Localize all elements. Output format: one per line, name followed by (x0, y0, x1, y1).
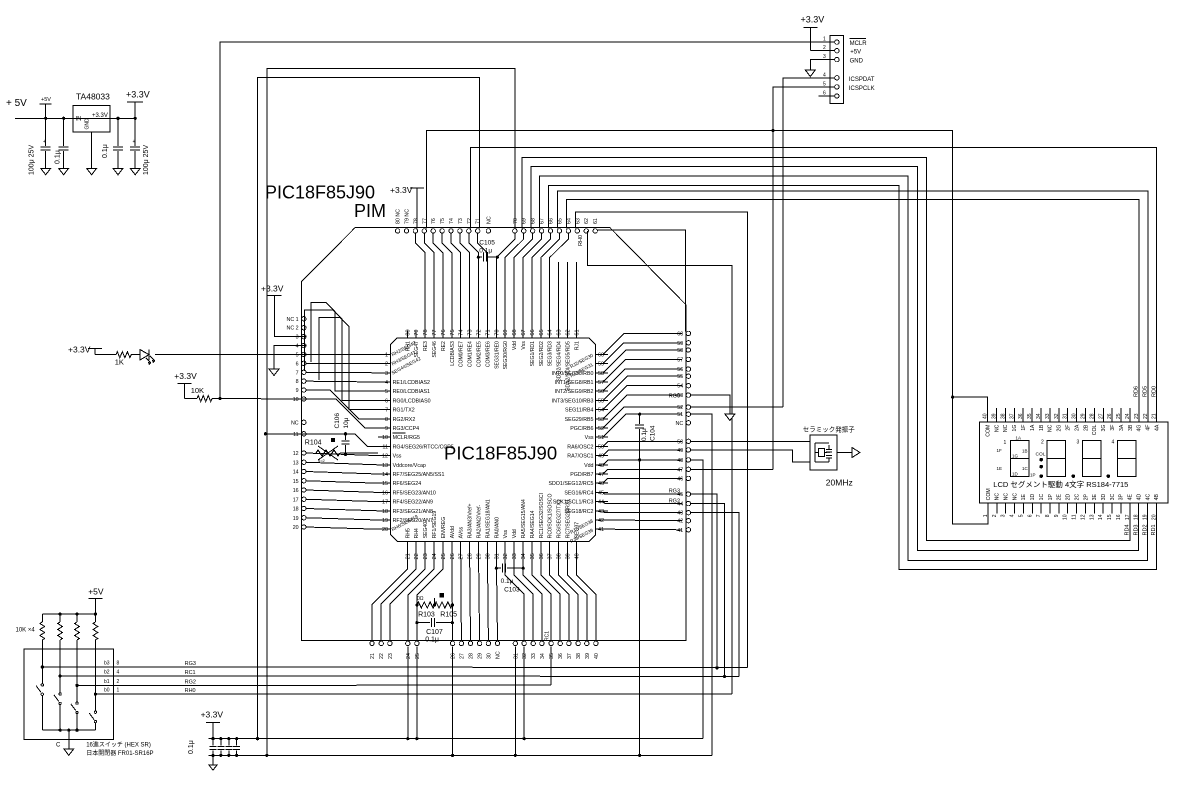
svg-text:NC: NC (1003, 424, 1009, 432)
svg-text:b0: b0 (104, 688, 110, 694)
svg-text:RF7/SEG25/AN5/SS1: RF7/SEG25/AN5/SS1 (393, 472, 445, 478)
svg-text:37: 37 (567, 653, 573, 659)
svg-text:5: 5 (823, 81, 826, 87)
svg-text:NC: NC (496, 651, 502, 659)
wire OSC1 to resonator (691, 450, 810, 462)
svg-text:39: 39 (566, 553, 572, 559)
display LCD decimal dots (1072, 474, 1111, 478)
label PIC18F85J90 PIM title (265, 183, 386, 221)
svg-text:46: 46 (598, 481, 604, 487)
svg-text:76: 76 (441, 329, 447, 335)
svg-text:+3.3V: +3.3V (126, 90, 150, 100)
label switch name (86, 741, 151, 749)
display LCD top pin labels (985, 424, 1160, 437)
svg-text:SEG2/RD2: SEG2/RD2 (539, 341, 545, 366)
ground C102 (59, 168, 69, 175)
svg-text:NC: NC (1012, 493, 1018, 501)
svg-text:65: 65 (557, 218, 563, 224)
svg-text:0Ω: 0Ω (417, 596, 424, 602)
wire COM to LCD pin40 (951, 396, 987, 409)
svg-text:22: 22 (379, 653, 385, 659)
svg-text:6: 6 (296, 361, 299, 367)
svg-text:+: + (133, 139, 136, 145)
svg-text:59: 59 (598, 362, 604, 368)
svg-text:R104: R104 (305, 440, 322, 447)
svg-text:1B: 1B (1022, 449, 1028, 454)
resistor array 10K x4 (16, 622, 98, 640)
wire switch b1 RG2 (75, 679, 186, 687)
svg-text:14: 14 (293, 470, 299, 476)
svg-text:21: 21 (405, 553, 411, 559)
display LCD title (993, 479, 1128, 489)
svg-text:38: 38 (557, 553, 563, 559)
svg-text:1C: 1C (1039, 494, 1045, 501)
svg-text:33: 33 (531, 653, 537, 659)
regulator GND label (85, 118, 91, 130)
svg-text:RD6: RD6 (1134, 386, 1140, 397)
module PIM top pin numbers (396, 209, 600, 224)
svg-text:RE1/LCDBIAS2: RE1/LCDBIAS2 (393, 380, 430, 386)
svg-text:78: 78 (413, 218, 419, 224)
resistor R103 0 ohm (415, 596, 436, 619)
svg-text:53: 53 (598, 417, 604, 423)
svg-text:1: 1 (823, 37, 826, 43)
wire fan PIM top pins 70-61 to chip (496, 233, 576, 331)
capacitor C104a 100u 25V electrolytic (130, 118, 150, 175)
display LCD digit1 segment labels (997, 436, 1036, 478)
svg-text:b1: b1 (104, 679, 110, 685)
svg-text:60: 60 (677, 331, 683, 337)
svg-text:74: 74 (459, 329, 465, 335)
wire ICSPCLK to PIM pin47 (691, 468, 773, 470)
svg-text:32: 32 (1054, 413, 1060, 419)
svg-text:57: 57 (677, 357, 683, 363)
junction C103a (116, 117, 119, 120)
display LCD colon label and dots (1036, 452, 1046, 478)
power flag +3.3V PIM top pin78 (390, 185, 424, 229)
svg-text:RD3: RD3 (1133, 524, 1139, 535)
svg-text:26: 26 (1107, 413, 1113, 419)
svg-text:8: 8 (296, 379, 299, 385)
svg-text:4B: 4B (1154, 494, 1160, 501)
svg-text:43: 43 (677, 511, 683, 517)
resistor R2 10K (184, 396, 212, 402)
svg-text:1A: 1A (1030, 424, 1036, 431)
svg-text:ENVREG: ENVREG (441, 517, 447, 539)
svg-text:73: 73 (468, 329, 474, 335)
chip U1 bottom pin stubs (407, 541, 576, 552)
svg-text:0.1μ: 0.1μ (479, 248, 492, 255)
svg-text:1P: 1P (1048, 494, 1054, 501)
connector J1 pin 2 (819, 45, 840, 53)
svg-text:0.1μ: 0.1μ (188, 740, 195, 754)
wire PIM pin31 to GND rail (514, 646, 516, 755)
svg-text:LCDBIAS3: LCDBIAS3 (450, 341, 456, 366)
svg-text:75: 75 (440, 218, 446, 224)
wire PIM pin53 RG0 (691, 395, 730, 414)
svg-text:PGD/RB7: PGD/RB7 (570, 472, 593, 478)
svg-text:1D: 1D (1030, 494, 1036, 501)
svg-text:8: 8 (385, 417, 388, 423)
svg-text:66: 66 (530, 329, 536, 335)
svg-text:+3.3V: +3.3V (201, 710, 224, 720)
svg-text:38: 38 (576, 653, 582, 659)
svg-text:SEG16/RC4: SEG16/RC4 (564, 490, 593, 496)
svg-text:1E: 1E (997, 466, 1003, 471)
wire PIM left pins 6-8 to chip 2-4 (306, 363, 378, 382)
svg-text:19: 19 (293, 516, 299, 522)
wire RD4 bus (522, 158, 1130, 541)
svg-text:71: 71 (476, 218, 482, 224)
display LCD digit234 labels (1041, 440, 1115, 446)
ground ICSP (805, 70, 815, 77)
switch SW1 poles (36, 640, 97, 730)
svg-text:18: 18 (382, 509, 388, 515)
svg-text:3: 3 (1077, 440, 1080, 446)
wire PIM pin26 to GND rail (452, 646, 454, 755)
svg-text:29: 29 (478, 653, 484, 659)
svg-text:77: 77 (422, 218, 428, 224)
wire RD2 bus (540, 176, 1148, 560)
svg-text:28: 28 (468, 553, 474, 559)
svg-text:RH1: RH1 (405, 341, 411, 351)
ground switch common (64, 749, 74, 756)
capacitor C104 0.1u (635, 413, 656, 462)
wire RD1 bus (549, 186, 1157, 570)
svg-text:RC1: RC1 (185, 670, 196, 676)
wire ICSPCLK net (773, 87, 819, 469)
svg-text:1: 1 (385, 352, 388, 358)
svg-text:57: 57 (598, 380, 604, 386)
connector J1 pin 5 (819, 81, 840, 89)
svg-text:11: 11 (382, 444, 388, 450)
svg-text:COL: COL (1092, 424, 1098, 435)
svg-text:40: 40 (983, 413, 989, 419)
connector J1 pin 6 (819, 91, 840, 99)
svg-text:51: 51 (677, 412, 683, 418)
svg-text:10μ: 10μ (343, 417, 350, 428)
svg-text:ICSPCLK: ICSPCLK (849, 86, 875, 92)
wire ICSPDAT net (783, 78, 819, 407)
junction C104a (134, 117, 137, 120)
wire RG3 bus line (186, 666, 747, 669)
svg-text:4C: 4C (1145, 494, 1151, 501)
wire MCLR net (220, 42, 819, 399)
svg-text:RC1: RC1 (545, 631, 551, 641)
wire R1 to LED (131, 354, 140, 356)
wire fan chip bottom pins to PIM bottom pins (372, 552, 596, 641)
svg-text:4A: 4A (1155, 424, 1161, 431)
module PIM right pin numbers (676, 331, 684, 533)
svg-text:45: 45 (598, 490, 604, 496)
svg-text:1K: 1K (115, 358, 124, 367)
label ceramic resonator (803, 425, 856, 434)
svg-text:24: 24 (406, 653, 412, 659)
svg-text:RE2: RE2 (441, 341, 447, 351)
svg-text:RH0: RH0 (185, 688, 196, 694)
svg-text:35: 35 (530, 553, 536, 559)
svg-text:2F: 2F (1066, 425, 1072, 431)
label GND (850, 59, 864, 65)
svg-text:10K: 10K (191, 386, 204, 395)
label RG3 right (669, 489, 680, 495)
svg-text:RD0: RD0 (1152, 386, 1158, 397)
svg-text:SEG29/RB5: SEG29/RB5 (565, 417, 594, 423)
wire switch b2 RC1 (59, 670, 187, 678)
regulator +3.3V out label (92, 113, 108, 119)
svg-text:7: 7 (296, 370, 299, 376)
svg-text:31: 31 (1063, 413, 1069, 419)
svg-text:41: 41 (677, 528, 683, 534)
svg-text:58: 58 (598, 371, 604, 377)
svg-text:38: 38 (1000, 413, 1006, 419)
ground cap bank (209, 755, 217, 770)
wire RH0 bus line (186, 693, 732, 695)
svg-text:25: 25 (1116, 413, 1122, 419)
svg-text:0.1μ: 0.1μ (641, 428, 648, 441)
svg-text:RG0/LCDBIAS0: RG0/LCDBIAS0 (393, 398, 431, 404)
display LCD digit outlines (1011, 441, 1136, 477)
wire PIM pin3 to +3.3V (275, 296, 306, 337)
svg-text:22: 22 (414, 553, 420, 559)
svg-text:RH5: RH5 (405, 528, 411, 538)
svg-text:22: 22 (1143, 413, 1149, 419)
connector J1 pin 1 (819, 37, 840, 45)
wire R103 R105 rails (417, 598, 452, 623)
svg-text:1: 1 (1004, 440, 1007, 446)
svg-text:14: 14 (1098, 514, 1104, 520)
wire C104 ground drop (639, 460, 641, 756)
svg-text:IN: IN (76, 117, 82, 123)
svg-text:SEG46: SEG46 (432, 341, 438, 358)
junction C101 (44, 117, 47, 120)
svg-text:COM3/RE6: COM3/RE6 (485, 341, 491, 367)
svg-text:AVss: AVss (459, 526, 465, 538)
svg-text:64: 64 (548, 329, 554, 335)
label +5V (850, 50, 861, 56)
svg-text:RA7/OSC1: RA7/OSC1 (567, 454, 593, 460)
wire COM bus (773, 131, 953, 398)
capacitor C107 0.1u (415, 618, 454, 643)
svg-text:COM0/RE7: COM0/RE7 (459, 341, 465, 367)
svg-text:Vss: Vss (585, 435, 594, 441)
label MCLR (850, 39, 868, 47)
svg-text:MCLR/RG5: MCLR/RG5 (393, 435, 420, 441)
svg-text:2E: 2E (1057, 494, 1063, 501)
svg-text:21: 21 (1152, 413, 1158, 419)
svg-text:44: 44 (598, 500, 604, 506)
svg-text:+3.3V: +3.3V (261, 284, 284, 294)
capacitor bank 0.1u x4 (188, 739, 240, 756)
power flag +5V switch (88, 587, 104, 615)
svg-text:35: 35 (1027, 413, 1033, 419)
svg-text:59: 59 (677, 341, 683, 347)
connector J1 pin 4 (819, 72, 840, 80)
svg-text:17: 17 (293, 497, 299, 503)
wire RC1 vertical right (691, 513, 740, 677)
svg-text:13: 13 (382, 463, 388, 469)
ground C104a (130, 168, 140, 175)
chip U1 top pin numbers (405, 329, 580, 335)
svg-text:25: 25 (441, 553, 447, 559)
svg-text:18: 18 (1134, 514, 1140, 520)
svg-text:36: 36 (539, 553, 545, 559)
svg-text:55: 55 (677, 374, 683, 380)
wire GND bottom rail (209, 754, 713, 757)
svg-text:4G: 4G (1137, 425, 1143, 432)
svg-text:32: 32 (522, 653, 528, 659)
svg-text:24: 24 (432, 553, 438, 559)
svg-text:34: 34 (1036, 413, 1042, 419)
svg-text:RG2: RG2 (669, 498, 680, 504)
wire PIM pin25 to +3.3V rail (416, 646, 418, 738)
svg-text:3: 3 (385, 371, 388, 377)
capacitor C105 0.1u (477, 240, 499, 262)
svg-text:23: 23 (388, 653, 394, 659)
svg-text:75: 75 (450, 329, 456, 335)
svg-text:COM: COM (986, 488, 992, 500)
svg-text:0.1μ: 0.1μ (55, 150, 62, 164)
svg-text:NC 2: NC 2 (287, 326, 299, 332)
svg-text:1P: 1P (1030, 473, 1036, 478)
wire switch b0 RH0 (94, 688, 186, 696)
svg-text:3E: 3E (1092, 494, 1098, 501)
svg-text:37: 37 (1009, 413, 1015, 419)
wire PIM left pin 11 to chip 11 (306, 434, 378, 447)
ground regulator (87, 168, 97, 175)
svg-text:COM2/RE5: COM2/RE5 (477, 341, 483, 367)
svg-text:13: 13 (1089, 514, 1095, 520)
svg-text:54: 54 (677, 384, 683, 390)
svg-text:3F: 3F (1110, 425, 1116, 431)
svg-text:18: 18 (293, 507, 299, 513)
svg-text:64: 64 (566, 218, 572, 224)
svg-text:71: 71 (485, 329, 491, 335)
svg-text:Vdd: Vdd (512, 341, 518, 350)
svg-text:30: 30 (486, 653, 492, 659)
wire cluster risers to chip 5-7 (304, 302, 378, 409)
svg-text:56: 56 (677, 367, 683, 373)
svg-text:50: 50 (598, 444, 604, 450)
chip U1 left pin stubs (378, 354, 391, 529)
svg-text:29: 29 (1081, 413, 1087, 419)
svg-text:4=2: 4=2 (318, 458, 326, 463)
svg-text:NC: NC (994, 424, 1000, 432)
module PIM bottom pin numbers (370, 651, 600, 659)
resistor R105 (435, 593, 458, 619)
svg-text:24: 24 (1125, 413, 1131, 419)
svg-text:3G: 3G (1101, 425, 1107, 432)
svg-text:Vddcore/Vcap: Vddcore/Vcap (393, 463, 426, 469)
svg-text:RF1/SEG19: RF1/SEG19 (432, 511, 438, 539)
wire Vss pin11 junction (264, 432, 306, 435)
svg-text:Vdd: Vdd (512, 529, 518, 538)
svg-text:63: 63 (557, 329, 563, 335)
svg-text:b2: b2 (104, 670, 110, 676)
svg-text:79: 79 (414, 329, 420, 335)
wire to R1 (95, 354, 116, 356)
svg-text:Vss: Vss (521, 341, 527, 350)
label switch part no (86, 749, 153, 757)
svg-text:SEG40: SEG40 (423, 522, 429, 539)
svg-text:42: 42 (598, 518, 604, 524)
svg-text:0.1μ: 0.1μ (102, 144, 109, 158)
svg-text:17: 17 (1125, 514, 1131, 520)
svg-text:SDO2/SEG4/RD4: SDO2/SEG4/RD4 (557, 341, 563, 382)
svg-text:10: 10 (293, 397, 299, 403)
svg-text:COM: COM (985, 425, 991, 437)
svg-text:30: 30 (1072, 413, 1078, 419)
svg-text:4: 4 (117, 670, 120, 676)
svg-text:SEG31/RE0: SEG31/RE0 (494, 341, 500, 369)
chip U1 bottom pin labels (405, 493, 580, 538)
svg-text:3C: 3C (1110, 494, 1116, 501)
svg-text:RA1/SEG18/AN1: RA1/SEG18/AN1 (485, 499, 491, 538)
svg-text:4: 4 (1112, 440, 1115, 446)
svg-text:RD4: RD4 (1125, 524, 1131, 535)
svg-text:80: 80 (405, 329, 411, 335)
svg-text:1E: 1E (1021, 494, 1027, 501)
svg-text:6: 6 (385, 398, 388, 404)
svg-text:46: 46 (677, 476, 683, 482)
svg-text:33: 33 (1045, 413, 1051, 419)
wire ICSPCLK branch to PIM pin77 (427, 129, 775, 229)
regulator U TA48033 box (73, 92, 110, 133)
svg-text:RH4: RH4 (414, 528, 420, 538)
svg-text:52: 52 (677, 405, 683, 411)
wire RG3 to PIM top pin63 (575, 212, 747, 667)
svg-text:28: 28 (1089, 413, 1095, 419)
power flag +3.3V MCLR pullup (174, 371, 204, 399)
svg-text:1G: 1G (1012, 454, 1019, 459)
display LCD bottom pin numbers (983, 514, 1157, 520)
svg-text:RA4/SEG14: RA4/SEG14 (530, 510, 536, 538)
svg-text:49: 49 (677, 448, 683, 454)
svg-text:41: 41 (598, 527, 604, 533)
svg-text:14: 14 (382, 472, 388, 478)
svg-text:19: 19 (382, 518, 388, 524)
svg-text:73: 73 (458, 218, 464, 224)
svg-text:70: 70 (513, 218, 519, 224)
svg-text:+: + (43, 139, 46, 145)
svg-text:31: 31 (494, 553, 500, 559)
svg-text:RD1: RD1 (1151, 524, 1157, 535)
svg-text:+3.3V: +3.3V (390, 185, 413, 195)
wire ICSP pin3 to ground (810, 60, 818, 70)
power flag +3.3V LED pullup (68, 345, 102, 355)
svg-text:3A: 3A (1119, 424, 1125, 431)
svg-text:4: 4 (296, 344, 299, 350)
module PIM left pin circles (302, 317, 306, 530)
svg-text:32: 32 (503, 553, 509, 559)
svg-text:34: 34 (540, 653, 546, 659)
svg-text:+3.3V: +3.3V (68, 345, 91, 355)
svg-text:49: 49 (598, 454, 604, 460)
svg-text:+5V: +5V (88, 587, 104, 597)
wire RG3 vertical (691, 494, 719, 669)
svg-text:SEG3/RD3: SEG3/RD3 (548, 341, 554, 366)
svg-text:RC6/SEG27/TX1: RC6/SEG27/TX1 (557, 499, 563, 538)
svg-text:67: 67 (540, 218, 546, 224)
svg-text:55: 55 (598, 398, 604, 404)
label RG2 bus (185, 679, 196, 685)
svg-text:RA3/AN3/Vref+: RA3/AN3/Vref+ (468, 503, 474, 538)
svg-text:0.1μ: 0.1μ (425, 637, 439, 644)
svg-text:65: 65 (539, 329, 545, 335)
svg-text:INT3/SEG10/RB3: INT3/SEG10/RB3 (552, 398, 594, 404)
wire RG2 vertical (691, 504, 727, 678)
svg-text:16進スイッチ (HEX SR): 16進スイッチ (HEX SR) (86, 741, 151, 749)
